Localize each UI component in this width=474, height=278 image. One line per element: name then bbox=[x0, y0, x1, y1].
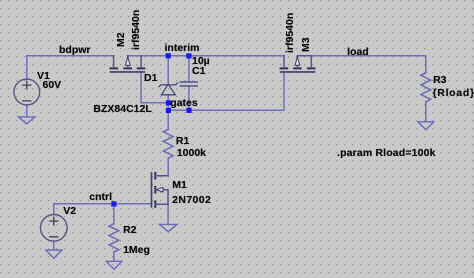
wire D1 top lead bbox=[167, 56, 169, 84]
label D1 bbox=[144, 73, 157, 84]
wire interim net bbox=[128, 55, 285, 57]
capacitor C1 bbox=[180, 82, 197, 86]
value BZX84C12L bbox=[93, 104, 151, 115]
label R1 bbox=[176, 136, 189, 147]
wire bdpwr net bbox=[27, 55, 114, 57]
ground (R2) bbox=[106, 261, 122, 269]
ground (M1) bbox=[160, 224, 177, 231]
label M1 bbox=[172, 180, 187, 191]
value 60V bbox=[43, 80, 62, 91]
wire R1 bottom to M1 drain bbox=[167, 158, 169, 176]
resistor R1 bbox=[163, 129, 173, 158]
transistor M2 (PMOS irf9540n) bbox=[111, 56, 145, 72]
node junction (gates lower) bbox=[166, 108, 171, 113]
wire R3 bottom lead bbox=[425, 102, 427, 122]
transistor M1 (NMOS 2N7002) bbox=[152, 173, 169, 207]
node label cntrl bbox=[89, 192, 112, 203]
value {Rload} bbox=[433, 88, 474, 99]
resistor R3 bbox=[421, 73, 431, 102]
wire cntrl net bbox=[54, 203, 152, 205]
node junction (gates C1 bottom) bbox=[186, 108, 191, 113]
wire M1 source to ground bbox=[167, 204, 169, 224]
label M3 bbox=[301, 38, 312, 53]
wire V1 bottom lead bbox=[26, 105, 28, 117]
label R3 bbox=[433, 75, 446, 86]
label V2 bbox=[63, 206, 76, 217]
wire C1 bottom lead bbox=[188, 86, 190, 110]
value irf9540n (M2) bbox=[131, 10, 142, 50]
value 1000k bbox=[177, 148, 206, 159]
label M2 bbox=[116, 32, 127, 47]
value irf9540n (M3) bbox=[285, 12, 296, 52]
wire C1 top lead bbox=[188, 56, 190, 82]
label V1 bbox=[37, 71, 50, 82]
value 2N7002 bbox=[172, 195, 211, 206]
wire R2 top lead bbox=[113, 204, 115, 224]
voltage source V2 bbox=[41, 215, 68, 242]
wire gates net to M3 gate bbox=[168, 72, 284, 110]
transistor M3 (PMOS irf9540n) bbox=[281, 56, 315, 72]
voltage source V1 bbox=[14, 79, 40, 105]
wire R2 bottom lead bbox=[113, 252, 115, 261]
zener diode D1 bbox=[161, 84, 175, 95]
directive .param Rload=100k bbox=[337, 148, 436, 159]
ground (R3) bbox=[418, 122, 434, 130]
node junction (cntrl / R2) bbox=[111, 201, 116, 206]
wire M2 gate to gates node bbox=[141, 72, 168, 103]
node label load bbox=[347, 47, 369, 58]
wire D1 bottom to R1 bbox=[167, 95, 169, 130]
wire V2 bottom lead bbox=[53, 241, 55, 250]
label R2 bbox=[123, 225, 136, 236]
resistor R2 bbox=[109, 224, 119, 252]
value 1Meg bbox=[123, 245, 150, 256]
node junction (interim right / C1 top) bbox=[186, 53, 191, 58]
wire V2 top lead bbox=[53, 204, 55, 215]
node label gates bbox=[170, 98, 197, 109]
node label interim bbox=[165, 43, 200, 54]
wire V1 top lead bbox=[26, 56, 28, 79]
node label bdpwr bbox=[59, 45, 91, 56]
node junction (gates upper) bbox=[166, 100, 171, 105]
value 10µ bbox=[192, 56, 210, 67]
node junction (interim left) bbox=[166, 53, 171, 58]
wire load net bbox=[311, 56, 426, 73]
ground (V2) bbox=[46, 250, 62, 258]
ground (V1) bbox=[18, 117, 35, 124]
label C1 bbox=[192, 66, 205, 77]
